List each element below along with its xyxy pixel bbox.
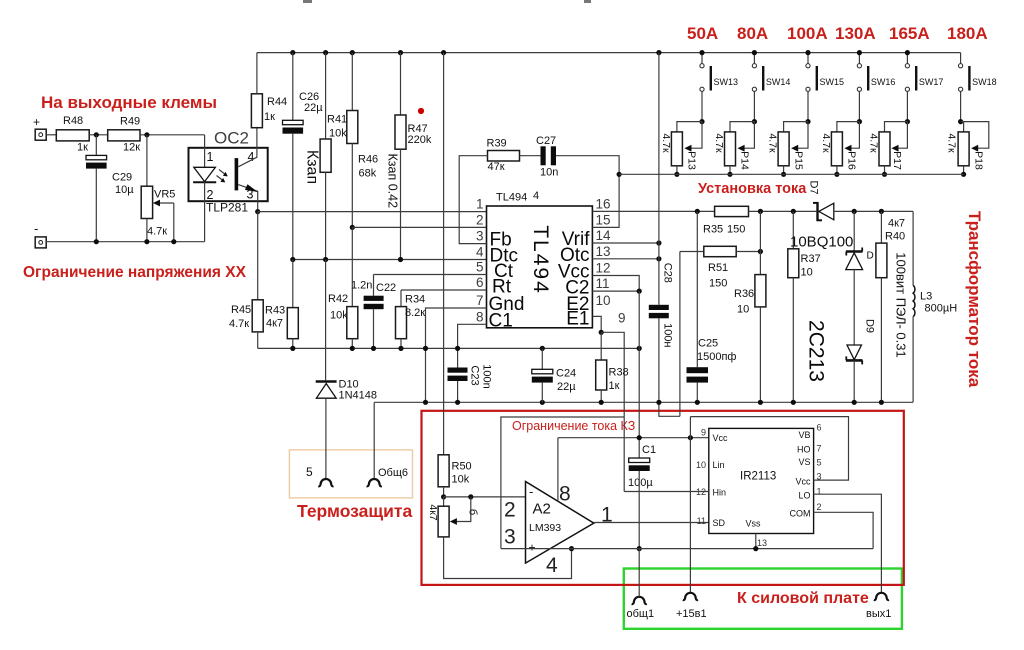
- node: Vcc row / +15 column: [688, 435, 693, 440]
- wire: C26 top lead: [292, 53, 294, 121]
- svg-text:9: 9: [618, 311, 626, 326]
- svg-text:10µ: 10µ: [115, 184, 134, 196]
- node: bus/C28 column: [656, 50, 661, 55]
- svg-text:SW13: SW13: [714, 77, 739, 87]
- node: C26/Dtc: [290, 257, 295, 262]
- resistor R40: [876, 243, 887, 278]
- node: gndbus/C25: [695, 400, 700, 405]
- svg-text:TL494: TL494: [496, 192, 527, 204]
- svg-text:180A: 180A: [947, 24, 988, 43]
- wire: R41 top lead: [325, 53, 327, 139]
- capacitor C23: [448, 368, 468, 373]
- wire: divider row to LM393 minus input: [444, 496, 526, 498]
- node: C23/mid: [455, 346, 460, 351]
- optocoupler OC2 box: [189, 148, 268, 201]
- capacitor C22: [364, 296, 384, 301]
- wire: pot bottom path to common: [444, 537, 572, 579]
- OC2 LED anode lead (pin1): [204, 135, 206, 168]
- svg-text:14: 14: [596, 228, 612, 243]
- node: potentiometer bus start: [617, 172, 622, 177]
- resistor R36: [755, 275, 766, 307]
- wire: TL494 pin14 row: [592, 242, 659, 244]
- node: gndbus/R38: [599, 400, 604, 405]
- wire: R51 row: [680, 251, 704, 253]
- stray mark top middle: [584, 0, 591, 3]
- node: bus/R41: [323, 50, 328, 55]
- resistor R41: [320, 139, 331, 172]
- svg-text:C1: C1: [642, 444, 656, 456]
- wire: R37 bottom to ground bus: [792, 278, 794, 403]
- wire: R42 bottom to mid line: [351, 339, 353, 349]
- node: VR5 top junction: [144, 132, 149, 137]
- resistor R38: [596, 360, 607, 390]
- wire: D10 anode down to thermal pin 5: [325, 398, 327, 478]
- diode D9: [847, 345, 862, 360]
- svg-text:P16: P16: [846, 151, 858, 170]
- svg-text:Vcc: Vcc: [795, 477, 811, 487]
- node: R34/mid: [398, 346, 403, 351]
- svg-text:10: 10: [696, 460, 706, 470]
- svg-text:SW16: SW16: [871, 77, 896, 87]
- svg-text:9: 9: [701, 428, 706, 438]
- wire: C25 bottom to ground bus: [696, 383, 698, 403]
- svg-text:R36: R36: [734, 288, 754, 300]
- switch SW18: [959, 53, 997, 122]
- capacitor C28: [649, 305, 669, 310]
- svg-text:4.7к: 4.7к: [767, 133, 779, 153]
- wire: R47 top lead: [400, 53, 402, 115]
- svg-text:C23: C23: [469, 365, 481, 385]
- wire: TL494 pin13 row: [592, 258, 659, 260]
- wire: C29 bottom lead: [95, 169, 97, 242]
- node: bus/SW14: [752, 50, 757, 55]
- wire: pot 4k7 top lead: [443, 497, 445, 506]
- svg-text:15: 15: [596, 212, 611, 227]
- svg-text:150: 150: [709, 278, 727, 290]
- svg-text:R41: R41: [327, 114, 347, 126]
- svg-text:R44: R44: [267, 96, 287, 108]
- svg-text:1: 1: [817, 487, 822, 497]
- svg-text:1500пф: 1500пф: [697, 351, 736, 363]
- red marker dot near R47: [418, 108, 424, 114]
- switch SW16: [857, 53, 895, 122]
- node: pin14/C28 column: [656, 240, 661, 245]
- capacitor C1: [629, 458, 650, 463]
- svg-text:6: 6: [817, 423, 822, 433]
- svg-text:R35: R35: [703, 224, 723, 236]
- wire: TL494 pin 1 row: [258, 211, 487, 213]
- wire: LM393 plus-input bracket: [501, 417, 624, 549]
- svg-text:E1: E1: [566, 308, 589, 329]
- node: Vcc column/mid: [637, 346, 642, 351]
- node: pot wiper junction: [468, 494, 473, 499]
- potentiometer P18 (wiper loop to the right): [945, 119, 988, 177]
- wire: R50 down Vref column (continues through red box): [443, 454, 445, 456]
- node: C22/mid: [371, 346, 376, 351]
- svg-text:5: 5: [817, 458, 822, 468]
- svg-text:R49: R49: [120, 116, 140, 128]
- svg-text:4.7к: 4.7к: [660, 133, 672, 153]
- svg-text:Установка тока: Установка тока: [698, 181, 807, 197]
- svg-text:4: 4: [546, 554, 558, 577]
- wire: C22 riser to pin 5: [374, 274, 487, 276]
- svg-text:100µ: 100µ: [628, 477, 653, 489]
- svg-text:общ1: общ1: [627, 608, 655, 620]
- wire: OC2 collector up to R44: [256, 128, 258, 148]
- svg-text:C27: C27: [536, 135, 556, 147]
- svg-text:R40: R40: [885, 231, 905, 243]
- wire: C28 column from top bus: [658, 53, 660, 305]
- wire: R45 bottom to mid gnd line: [257, 332, 259, 349]
- svg-text:P15: P15: [792, 151, 804, 170]
- capacitor C26: [283, 120, 304, 124]
- wire: +15 column down to connector: [689, 417, 691, 593]
- wire: C23 bottom to ground bus: [457, 381, 459, 402]
- svg-text:1к: 1к: [609, 380, 620, 392]
- svg-text:10: 10: [737, 304, 749, 316]
- svg-text:D7: D7: [808, 180, 820, 194]
- potentiometer P17: [867, 119, 910, 177]
- wire: VR5 top lead: [146, 135, 148, 186]
- highlight box: red "short-circuit current limiting": [422, 411, 904, 585]
- resistor R46: [347, 111, 358, 144]
- svg-text:R45: R45: [231, 304, 251, 316]
- node: E1/R38 junction: [599, 330, 604, 335]
- wire: R40 top lead: [880, 211, 882, 243]
- svg-text:80A: 80A: [737, 24, 768, 43]
- wire: R43 bottom to mid line: [292, 339, 294, 349]
- svg-text:R34: R34: [405, 294, 425, 306]
- svg-text:D9: D9: [864, 319, 876, 333]
- node: VR5 bottom: [144, 239, 149, 244]
- svg-text:10k: 10k: [329, 128, 347, 140]
- node: R50/pot divider: [441, 494, 446, 499]
- svg-text:R39: R39: [487, 138, 507, 150]
- node: bus/SW17: [905, 50, 910, 55]
- svg-text:1: 1: [476, 196, 484, 211]
- wire: C24 bottom to ground bus: [541, 383, 543, 403]
- diode D7 (zener): [816, 202, 818, 221]
- wire: VR5 wiper riser: [173, 203, 175, 242]
- wire: transformer winding column bottom: [912, 317, 914, 403]
- resistor R44: [251, 94, 262, 128]
- node: R43/mid: [290, 346, 295, 351]
- svg-text:Lin: Lin: [713, 460, 725, 470]
- svg-text:P18: P18: [972, 151, 984, 170]
- wire: R34 bottom to mid line: [400, 339, 402, 349]
- pot 4к7 wiper arrow: [454, 497, 471, 522]
- wire: LM393 pin8 riser to Vcc row: [557, 438, 559, 502]
- svg-text:A2: A2: [533, 501, 551, 518]
- diode D (10BQ100 schottky): [846, 250, 863, 253]
- potentiometer P14: [713, 119, 757, 177]
- svg-text:VS: VS: [798, 457, 810, 467]
- wire: R38 bottom to ground bus: [600, 390, 602, 402]
- node: pin13/C28 column: [656, 256, 661, 261]
- svg-text:OC2: OC2: [214, 129, 249, 148]
- wire: pin 8 C1 riser: [458, 324, 487, 367]
- connector hook Общ6 (thermal): [367, 479, 382, 486]
- IC IR2113 box: [709, 428, 814, 533]
- resistor R35: [715, 206, 749, 216]
- svg-text:800µН: 800µН: [925, 303, 958, 315]
- wire: Общ6 riser to ground bus corner: [373, 402, 375, 478]
- svg-text:-: -: [529, 484, 533, 499]
- svg-text:1N4148: 1N4148: [339, 390, 378, 402]
- svg-text:COM: COM: [790, 509, 811, 519]
- resistor R37: [788, 249, 799, 278]
- wire: общ1 riser: [638, 549, 640, 597]
- svg-text:165A: 165A: [889, 24, 930, 43]
- wire: Vss stub to common: [755, 534, 757, 549]
- wire: C25 riser from pin16 node: [696, 211, 698, 367]
- node: Vcc row / C1 column: [637, 435, 642, 440]
- wire: C28 bottom to ground bus and +15 jog: [659, 318, 680, 416]
- wire: TL494 E1 exit: [592, 316, 601, 332]
- connector hook +15в1: [683, 593, 698, 600]
- svg-text:SW14: SW14: [766, 77, 791, 87]
- node: R37 top: [791, 209, 796, 214]
- wire: C27 to pin15 bracket: [556, 156, 619, 228]
- svg-text:4: 4: [476, 245, 484, 260]
- node: pin7 riser/mid: [423, 346, 428, 351]
- connector hook 5 (thermal): [318, 479, 333, 486]
- svg-text:10BQ100: 10BQ100: [790, 234, 853, 251]
- node: R51/R36 column: [758, 249, 763, 254]
- node: bus/SW13: [699, 50, 704, 55]
- switch SW17: [905, 53, 943, 122]
- wire: bottom return line from - terminal: [46, 241, 204, 243]
- svg-text:4.7к: 4.7к: [867, 133, 879, 153]
- svg-text:3: 3: [476, 229, 484, 244]
- svg-text:12к: 12к: [123, 142, 140, 154]
- svg-text:Кзап: Кзап: [304, 150, 321, 184]
- wire: R51 left riser down to +15 jog: [679, 252, 681, 417]
- svg-text:4к7: 4к7: [427, 504, 439, 520]
- wire: potentiometer bottom bus: [619, 173, 964, 175]
- svg-text:б: б: [467, 509, 479, 515]
- svg-text:6: 6: [476, 275, 484, 290]
- svg-text:4.7к: 4.7к: [147, 226, 167, 238]
- wire: R41 bottom to Dtc row: [325, 172, 327, 259]
- svg-text:50A: 50A: [687, 24, 718, 43]
- node: pin16 / C25 riser: [695, 209, 700, 214]
- svg-text:Кзап 0.42: Кзап 0.42: [386, 154, 400, 209]
- node: gndbus/R40: [879, 400, 884, 405]
- wire: TL494 pin 16 row to R35: [592, 210, 714, 212]
- wire: R49 to OC2 LED anode column: [140, 134, 205, 136]
- node: R42/mid: [350, 346, 355, 351]
- node: gndbus/R37: [791, 400, 796, 405]
- svg-text:2C213: 2C213: [805, 320, 828, 382]
- connector hook общ1: [632, 597, 647, 604]
- wire: top Vref bus: [257, 52, 961, 54]
- svg-text:1к: 1к: [77, 142, 88, 154]
- svg-text:P17: P17: [891, 151, 903, 170]
- node: R40 top: [879, 209, 884, 214]
- svg-text:P13: P13: [686, 151, 698, 170]
- svg-text:22µ: 22µ: [557, 381, 576, 393]
- wire: bottom ground bus: [374, 401, 913, 403]
- wire: TL494 pin 4 (Dtc) row: [293, 259, 487, 261]
- wire: R36 column: [759, 211, 761, 274]
- terminal - (output clamp): [35, 237, 46, 248]
- node: C24 riser/mid: [540, 346, 545, 351]
- svg-text:TLP281: TLP281: [206, 201, 248, 215]
- svg-text:7: 7: [817, 444, 822, 454]
- wire: R47 bottom to Dtc row: [400, 149, 402, 259]
- node: pin11/Vcc column: [637, 289, 642, 294]
- OC2 LED cathode lead (pin2): [204, 182, 206, 242]
- svg-text:8: 8: [476, 309, 484, 324]
- wire: R46 top lead: [351, 53, 353, 111]
- node: bus/SW15: [805, 50, 810, 55]
- resistor R51: [704, 246, 736, 256]
- capacitor C25: [687, 367, 709, 373]
- svg-text:Трансформатор тока: Трансформатор тока: [965, 211, 984, 388]
- svg-text:+: +: [529, 541, 536, 555]
- wire: R48 to R49: [89, 134, 108, 136]
- svg-text:4.7к: 4.7к: [229, 318, 249, 330]
- highlight box: green "to power board": [624, 569, 902, 629]
- svg-text:VR5: VR5: [154, 189, 175, 201]
- svg-text:7: 7: [476, 293, 484, 308]
- wire: R34 riser to pin 6: [401, 289, 487, 291]
- wire: C26 bottom lead down to Dtc row: [292, 134, 294, 260]
- svg-text:L3: L3: [920, 291, 932, 303]
- resistor R45: [252, 300, 263, 332]
- capacitor C29: [86, 155, 107, 159]
- svg-text:8.2к: 8.2к: [405, 307, 425, 319]
- svg-text:Общ6: Общ6: [378, 467, 408, 479]
- svg-text:10: 10: [801, 267, 813, 279]
- wire: TL494 pin11 row: [592, 290, 639, 292]
- highlight box: thermal protection (tan): [289, 450, 412, 498]
- svg-text:вых1: вых1: [866, 608, 891, 620]
- wire: VR5 bottom lead: [146, 219, 148, 242]
- inductor L3 winding: [913, 285, 915, 316]
- svg-text:R46: R46: [358, 154, 378, 166]
- wire: long Vref column (bus to R50): [443, 53, 445, 455]
- svg-text:На выходные клемы: На выходные клемы: [41, 93, 217, 112]
- node: gndbus/pin7 riser: [423, 400, 428, 405]
- node: C29 bottom: [94, 239, 99, 244]
- OC2 LED: [194, 167, 216, 181]
- node: gndbus/C23: [455, 400, 460, 405]
- OC2 phototransistor: [235, 158, 239, 190]
- wire: C24 riser: [541, 348, 543, 369]
- svg-text:+15в1: +15в1: [676, 608, 707, 620]
- svg-text:D: D: [867, 251, 874, 262]
- node: pot-bottom riser/common line: [569, 546, 574, 551]
- svg-text:220k: 220k: [408, 134, 432, 146]
- node: bus/R50 column: [441, 50, 446, 55]
- wire: R44 top to bus: [256, 53, 258, 94]
- svg-text:C28: C28: [662, 263, 674, 283]
- wire: C1 bottom to common: [638, 471, 640, 549]
- resistor R47: [395, 115, 406, 149]
- svg-text:22µ: 22µ: [304, 102, 323, 114]
- svg-text:10k: 10k: [452, 474, 470, 486]
- svg-text:47к: 47к: [488, 161, 505, 173]
- switch SW15: [806, 53, 844, 122]
- svg-text:13: 13: [596, 244, 611, 259]
- node: 10BQ100 top: [852, 209, 857, 214]
- node: Vss/common: [753, 546, 758, 551]
- svg-text:C24: C24: [556, 368, 576, 380]
- svg-text:+: +: [33, 115, 40, 129]
- wire: C29 top lead: [95, 135, 97, 156]
- node: gndbus/C24: [540, 400, 545, 405]
- potentiometer VR5: [141, 186, 152, 218]
- svg-text:100н: 100н: [662, 323, 674, 347]
- resistor R34: [396, 307, 407, 339]
- svg-text:C29: C29: [112, 172, 132, 184]
- wire: R38 top lead: [600, 332, 602, 360]
- wire: mid ground line: [258, 347, 640, 349]
- node: bus/R46: [350, 50, 355, 55]
- wire: COM row to common: [814, 512, 874, 548]
- wire: D7 to transformer column: [834, 210, 913, 212]
- svg-text:10: 10: [596, 293, 611, 308]
- wire: TL494 pin12 to pin11 bracket: [592, 276, 639, 292]
- svg-text:4: 4: [533, 190, 539, 202]
- svg-text:12: 12: [596, 261, 611, 276]
- terminal + (output clamp): [35, 129, 46, 140]
- svg-text:Термозащита: Термозащита: [297, 501, 412, 521]
- resistor R39: [488, 151, 520, 162]
- node: bus/C26: [290, 50, 295, 55]
- svg-text:P14: P14: [739, 151, 751, 170]
- wire: R36 bottom to ground bus: [759, 307, 761, 402]
- svg-text:1.2n: 1.2n: [351, 280, 372, 292]
- svg-text:4к7: 4к7: [266, 318, 283, 330]
- svg-text:130A: 130A: [835, 24, 876, 43]
- svg-text:SW18: SW18: [972, 77, 997, 87]
- VR5 wiper arrow: [157, 202, 174, 204]
- svg-text:5: 5: [476, 260, 484, 275]
- svg-text:100вит ПЭЛ- 0.31: 100вит ПЭЛ- 0.31: [894, 252, 909, 357]
- svg-text:100A: 100A: [787, 24, 828, 43]
- svg-text:2: 2: [504, 499, 516, 522]
- switch SW13: [700, 53, 738, 122]
- node: gndbus/R36: [758, 400, 763, 405]
- wire: C22 bottom to mid line: [373, 309, 375, 348]
- svg-text:10k: 10k: [330, 310, 348, 322]
- svg-text:4к7: 4к7: [888, 218, 905, 230]
- svg-text:LO: LO: [798, 491, 810, 501]
- svg-text:1к: 1к: [264, 111, 275, 123]
- node: gndbus/D9: [852, 400, 857, 405]
- svg-text:К силовой плате: К силовой плате: [737, 590, 869, 607]
- svg-text:R43: R43: [265, 305, 285, 317]
- wire: R43 top lead: [292, 260, 294, 308]
- wire: R42 top lead: [351, 227, 353, 306]
- svg-text:4.7к: 4.7к: [713, 133, 725, 153]
- svg-text:HO: HO: [797, 445, 811, 455]
- resistor R50: [438, 455, 449, 487]
- svg-text:Hin: Hin: [713, 488, 727, 498]
- wire: common line: [501, 548, 873, 550]
- op-amp A2 LM393: [526, 482, 594, 564]
- capacitor C24: [532, 369, 553, 374]
- svg-text:SW17: SW17: [919, 77, 944, 87]
- svg-text:Vcc: Vcc: [713, 433, 729, 443]
- node: R48/R49/C29 junction: [94, 132, 99, 137]
- svg-text:16: 16: [596, 196, 611, 211]
- svg-text:Ограничение напряжения ХХ: Ограничение напряжения ХХ: [23, 264, 247, 281]
- wire: R37 column: [792, 211, 794, 248]
